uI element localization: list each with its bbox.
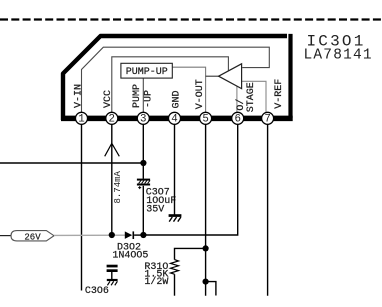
wire pin7 V-REF to amp — [242, 81, 266, 112]
wire hook — [206, 282, 216, 296]
IC package right edge — [288, 34, 292, 118]
wire 26V rail (gray) — [54, 234, 125, 236]
wire horizontal to pin3 net — [0, 162, 143, 164]
node junction R310 top — [203, 245, 209, 251]
svg-text:5: 5 — [202, 114, 208, 126]
svg-text:V-OUT: V-OUT — [195, 79, 206, 109]
svg-text:PUMP-UP: PUMP-UP — [126, 67, 168, 78]
svg-text:LA78141: LA78141 — [304, 47, 373, 63]
wire pin7 down — [267, 124, 269, 296]
node junction diode/pin3 net — [140, 232, 146, 238]
wire pin4 down — [174, 124, 176, 215]
node junction hook — [203, 279, 209, 285]
svg-text:PUMP: PUMP — [132, 84, 143, 108]
svg-text:4: 4 — [171, 114, 177, 126]
wire pin1 down — [81, 124, 83, 291]
ground (C306) — [107, 279, 118, 285]
wire pin5 down — [205, 124, 207, 296]
svg-text:7: 7 — [264, 114, 270, 126]
svg-text:35V: 35V — [146, 204, 164, 215]
wire pin6 to amp bottom — [236, 86, 238, 113]
svg-text:8.74mA: 8.74mA — [113, 170, 123, 203]
node junction at pin3 net — [140, 160, 146, 166]
wire R310 bottom lead — [174, 274, 176, 296]
diode D302 — [125, 231, 144, 239]
node junction 26V / pin2 net — [109, 232, 115, 238]
wire pin3 down — [142, 124, 144, 179]
svg-text:3: 3 — [140, 114, 146, 126]
wire R310 top lead — [175, 248, 206, 259]
svg-text:-UP: -UP — [143, 90, 154, 108]
svg-text:2: 2 — [109, 114, 115, 126]
wire C306 down — [111, 272, 113, 279]
wire pin3 to pump-up box — [142, 78, 144, 113]
svg-text:1/2W: 1/2W — [144, 276, 168, 288]
svg-text:26V: 26V — [24, 232, 41, 242]
svg-text:6: 6 — [234, 114, 240, 126]
ground (pin 4) — [169, 214, 182, 221]
pin 1 circle — [76, 112, 88, 124]
wire C307 down — [142, 186, 144, 233]
wire amp output — [206, 75, 220, 77]
pin 4 circle — [169, 112, 181, 124]
wire pin5 to box and amp output — [172, 67, 205, 112]
block PUMP-UP — [121, 63, 172, 78]
svg-text:VCC: VCC — [103, 90, 114, 108]
pin 6 circle — [232, 112, 244, 124]
capacitor C307 — [137, 179, 150, 190]
dashed boundary line — [0, 18, 382, 20]
wire VCC pin2 to amp top — [112, 57, 229, 113]
svg-text:V-IN: V-IN — [73, 84, 84, 108]
wire pin2 down — [111, 124, 113, 235]
op-amp U1 triangle — [219, 64, 242, 89]
26V net flag — [0, 235, 12, 237]
wire pin6 down to supply rail — [143, 124, 237, 235]
IC package outline — [63, 36, 287, 120]
svg-text:1: 1 — [78, 114, 84, 126]
wire pin 1 V-IN to op-amp input — [82, 47, 270, 112]
capacitor C306 — [107, 265, 118, 272]
svg-text:O/: O/ — [235, 99, 247, 111]
current arrow 8.74mA — [105, 143, 120, 156]
svg-text:V-REF: V-REF — [274, 79, 285, 109]
svg-text:C3O6: C3O6 — [85, 286, 109, 297]
pin 3 circle — [137, 112, 149, 124]
svg-text:STAGE: STAGE — [246, 82, 257, 112]
pin 2 circle — [106, 112, 118, 124]
svg-text:GND: GND — [171, 90, 182, 108]
IC package bottom band — [61, 116, 293, 122]
pin 5 circle — [200, 112, 212, 124]
svg-text:1N4OO5: 1N4OO5 — [112, 250, 148, 261]
resistor R310 — [171, 260, 179, 275]
pin 7 circle — [262, 112, 274, 124]
